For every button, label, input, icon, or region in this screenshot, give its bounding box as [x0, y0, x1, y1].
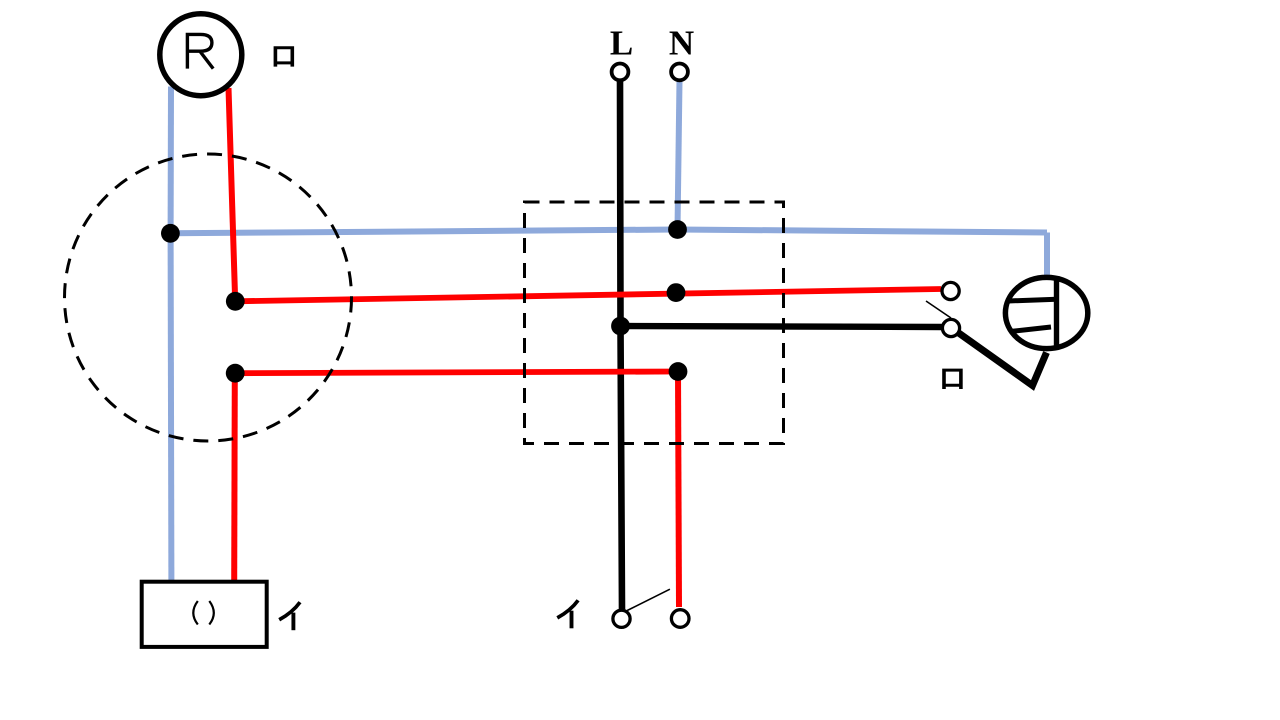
label イ (near ceiling light box)	[279, 602, 300, 630]
lamp receptacle R	[160, 14, 242, 96]
svg-text:N: N	[669, 24, 694, 63]
outline: dashed joint box	[525, 202, 784, 444]
wire: blue neutral drop to outlet symbol	[1044, 233, 1050, 277]
label ロ (top, near lamp R)	[274, 46, 295, 66]
node: junction dot red upper left	[226, 292, 245, 311]
ceiling light box: left parenthesis	[193, 601, 198, 625]
outlet lamp symbol: connecting link from switch ロ	[958, 333, 1047, 386]
wire: blue neutral from lamp R down to left node	[168, 87, 174, 234]
node: junction dot black in joint box	[611, 317, 630, 336]
wire: blue neutral horizontal main run	[170, 230, 1047, 234]
wire: black live branch to switch ロ	[621, 326, 942, 327]
outlet lamp symbol: body circle	[1005, 277, 1087, 348]
svg-text:L: L	[610, 24, 633, 63]
wire: blue neutral from N terminal	[678, 81, 680, 230]
wire: blue neutral left vertical down to ceiling light box	[168, 233, 175, 582]
terminal L	[610, 24, 633, 81]
outline: dashed circle (lamp receptacle work area)	[65, 154, 352, 441]
switch ロ: upper contact	[942, 282, 959, 299]
switch イ: lever (thin line)	[627, 589, 670, 610]
terminal N	[669, 24, 694, 81]
outlet lamp symbol: lower blade	[1010, 327, 1051, 332]
wire: black live from L terminal down to switch イ	[620, 81, 622, 610]
outlet lamp symbol: vertical bar	[1054, 276, 1059, 350]
node: junction dot red lower left	[226, 364, 245, 383]
switch イ: left contact	[613, 610, 630, 627]
switch ロ: lever (thin line)	[926, 301, 951, 318]
outlet lamp symbol: upper blade	[1008, 299, 1057, 301]
label イ (near switch)	[557, 600, 578, 628]
label ロ (right, near switch)	[942, 369, 963, 389]
wire: red switch イ return horizontal	[235, 372, 678, 374]
switch イ: right contact	[671, 610, 689, 628]
node: junction dot blue in joint box	[668, 220, 687, 239]
wire: red down to switch イ	[678, 372, 679, 608]
node: junction dot blue left	[161, 224, 180, 243]
node: junction dot red lower in joint box	[669, 362, 688, 381]
wire: red return from switch ロ to lamp	[235, 289, 941, 301]
wire: red from lamp R down	[229, 88, 236, 301]
switch ロ: lower contact	[942, 319, 959, 336]
ceiling light box	[142, 582, 267, 647]
wire: red down to ceiling light box	[231, 373, 238, 582]
ceiling light box: right parenthesis	[209, 601, 214, 625]
node: junction dot red in joint box	[667, 283, 686, 302]
